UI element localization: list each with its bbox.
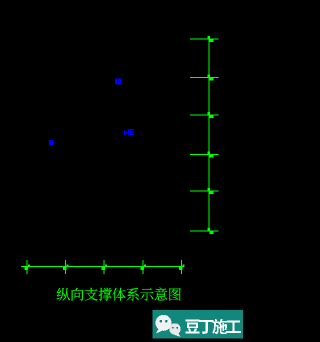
right ruler tick line T1 [190,38,218,39]
right ruler tick slash blob T2 [210,77,214,81]
title char 向 [72,288,84,301]
right ruler tick slash blob T3 [210,114,214,118]
title char 体 [113,288,126,301]
right ruler tick slash blob T5 [210,190,214,194]
bottom ruler extension line B4 [142,260,143,274]
bottom ruler extension line B2 [65,260,66,274]
title char 图 [169,288,181,301]
right ruler tick slash peak T6 [207,228,210,231]
bottom ruler tick slash blob B4 [140,267,144,270]
watermark logo: small chat bubble [169,323,180,334]
watermark teal badge [153,310,244,339]
title char 系 [127,288,139,301]
dimension line: right vertical ruler main line [209,36,210,232]
bottom ruler tick slash blob B5 [179,267,183,270]
drawing title text (green CJK glyph paths) [57,288,181,301]
bottom ruler tick slash peak B2 [66,264,68,266]
title char 支 [85,288,98,301]
bottom ruler extension line B1 [26,260,27,274]
dimension line: bottom horizontal ruler main line [21,266,184,267]
right ruler tick slash blob T1 [210,38,214,42]
watermark char 豆 [185,320,199,334]
blue label mark C (small text blob) [124,129,133,135]
right ruler tick line T5 [190,190,218,191]
right ruler tick line T4 [190,154,218,155]
bottom ruler tick slash peak B4 [144,264,146,266]
right ruler tick slash peak T5 [207,188,210,191]
title char 意 [155,288,168,301]
watermark char 施 [212,319,227,334]
bottom ruler tick slash peak B5 [182,264,184,266]
right ruler tick slash peak T2 [207,74,210,77]
bottom ruler tick slash peak B3 [105,264,107,266]
right ruler tick line T2 [190,77,218,78]
right ruler tick slash peak T3 [207,112,210,115]
watermark char 工 [226,321,241,333]
title char 撑 [99,288,112,301]
bottom ruler tick slash blob B3 [101,267,105,270]
bottom ruler tick slash blob B1 [24,267,28,270]
right ruler tick line T6 [190,230,218,231]
right ruler tick slash blob T4 [210,154,214,158]
blue label mark B (solid square with nub) [49,140,55,145]
watermark text (white CJK glyph paths) [185,319,241,334]
right ruler tick slash peak T4 [207,151,210,154]
bottom ruler extension line B5 [181,260,182,274]
title char 示 [140,288,153,300]
right ruler tick line T3 [190,114,218,115]
bottom ruler tick slash peak B1 [28,264,30,266]
watermark logo: big chat bubble [156,315,181,337]
right ruler tick slash blob T6 [210,230,214,234]
title char 纵 [57,288,70,301]
right ruler tick slash peak T1 [207,36,210,39]
bottom ruler tick slash blob B2 [63,267,67,270]
blue label mark A (small text blob) [115,78,122,84]
bottom ruler extension line B3 [103,260,104,274]
watermark char 丁 [199,320,213,334]
